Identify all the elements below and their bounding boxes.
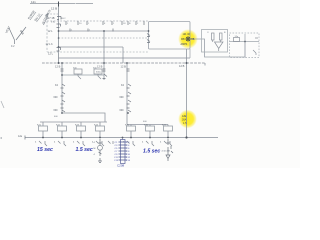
wire 12V top feed [30,3,93,5]
wire chain x103 [103,63,105,80]
chain x100 labels [94,142,96,156]
svg-text:12 B: 12 B [55,65,61,69]
wire drop x123 [122,47,124,63]
under-bus glyphs [39,141,172,146]
yellow highlight node 1 [178,29,198,49]
relay box U1 outline [149,22,191,50]
chain below bus at x100 [98,139,103,163]
chain x128 labels [120,84,125,112]
wire chain x128 [126,63,128,125]
sub contact 2 [98,74,101,79]
arrow V left [9,27,26,44]
wire connector A [40,121,107,123]
block B internals [234,38,259,56]
wire inside block B [230,34,260,58]
svg-text:15 sec: 15 sec [37,147,53,153]
svg-text:121 40: 121 40 [183,33,191,36]
relay K boxes row [39,126,173,131]
wire connector B [127,124,168,126]
junction dots on dashed bus [58,62,60,64]
svg-text:600: 600 [120,96,125,99]
svg-text:12 B: 12 B [51,7,57,11]
under-bus tiny labels [35,142,162,144]
connector strip C208 [119,140,128,164]
chain x62 labels [54,84,59,112]
wire dashed feed [47,13,59,15]
junction node 12Lb [58,46,60,48]
svg-text:12 L: 12 L [48,29,54,33]
extra marks under bus right [171,146,173,153]
wire main vertical bus [58,4,60,64]
yellow highlight node 2 [178,110,197,129]
wire row 3 [59,46,124,48]
svg-text:1.5 sec: 1.5 sec [76,147,93,153]
junction row1 box pin [148,30,150,32]
leader line 1 [30,12,36,20]
chain x62 components [61,69,66,112]
connector strip pin labels right [126,142,131,162]
wire vertical to lower node [186,49,188,138]
svg-text:1.5 sec: 1.5 sec [143,149,160,155]
junction chain x128 [127,112,129,114]
arrowhead at dashed line top [45,14,48,17]
left edge faint mark [1,101,4,108]
svg-text:MB: MB [181,38,185,41]
glyph pair x109 [108,141,113,144]
svg-text:12 B: 12 B [121,65,127,69]
pin labels [67,23,139,25]
svg-text:C208: C208 [117,164,125,168]
junction node 12L [58,30,60,32]
sub relay box 2 [94,69,102,74]
wire lower bus [25,137,218,139]
junction block B [244,41,246,43]
fuse F1 [57,17,61,20]
component marks on main bus [57,24,61,28]
wire drop x104 [103,31,105,63]
connector symbol in yellow node 1 [186,37,190,41]
wire chain x62 [61,63,63,113]
junction to connector strip [122,137,124,139]
relay box stubs and drops [43,122,168,138]
chain below bus at x168 [166,139,170,161]
leader line 2 [37,14,43,22]
wire sub row y75 [62,74,104,76]
sub contact 1 [78,74,81,79]
ticks on row1 [70,29,113,32]
svg-text:600: 600 [120,109,125,112]
svg-text:600: 600 [54,109,59,112]
svg-text:AMPS: AMPS [181,43,188,46]
junction chain x62 [61,74,63,76]
connector strip pin labels left [114,142,119,162]
chain x104 components [103,69,108,79]
relay labels [37,125,167,127]
svg-text:M: M [94,148,96,150]
wire dashed lower feed [42,62,205,64]
svg-text:12 B: 12 B [97,65,103,69]
component block right B dashed outline [230,33,260,58]
chain x128 components [127,69,132,112]
leader line 3 [44,16,49,25]
svg-text:12v: 12v [31,0,36,4]
junction mid vertical on dashed bus [186,62,188,64]
tick end of dashed feed [204,63,206,66]
block A internals [212,33,224,51]
svg-text:HB: HB [191,38,195,41]
sub relay box 1 [74,69,82,74]
junction dots on lower bus [42,136,188,138]
wire L from chain x62 [62,113,105,122]
wire stub second [189,49,191,58]
svg-text:12a: 12a [18,135,23,138]
wire horizontal bus y58 [59,57,191,59]
svg-text:1B 2: 1B 2 [61,18,66,20]
svg-text:12 L: 12 L [48,52,54,56]
svg-text:600: 600 [54,96,59,99]
component block right A outline [202,30,228,53]
wire dashed box top edge [47,20,149,22]
left edge dot [1,137,3,139]
svg-text:600a: 600a [96,72,102,74]
wire from node to right [190,39,245,57]
pin ticks on dashed box top [66,21,144,25]
svg-text:12 B: 12 B [179,64,185,68]
svg-text:12 L b: 12 L b [46,42,54,46]
tick on feed line [58,2,60,7]
wire row 1 to box pin 1 [59,30,149,32]
junction row1 x104 [103,30,105,32]
box U1 left pin marks [147,34,150,43]
lower bus left end mark [24,136,26,140]
wire row 2 dashed to box pin 2 [59,37,149,39]
stub to connector strip [122,138,124,140]
wire dashed box bottom edge [47,51,148,53]
wire dashed left boundary [46,14,48,53]
svg-text:4 10 4 B: 4 10 4 B [162,151,171,153]
component mark lower [57,48,61,52]
